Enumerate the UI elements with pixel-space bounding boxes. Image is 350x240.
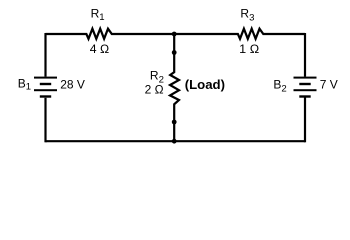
svg-text:7 V: 7 V <box>320 78 338 92</box>
svg-text:R1: R1 <box>91 7 105 24</box>
svg-text:4 Ω: 4 Ω <box>90 42 109 56</box>
svg-text:B1: B1 <box>18 76 31 92</box>
svg-text:B2: B2 <box>273 78 286 95</box>
svg-text:R3: R3 <box>240 7 254 24</box>
svg-text:1 Ω: 1 Ω <box>239 42 259 56</box>
svg-text:2 Ω: 2 Ω <box>145 82 164 96</box>
svg-text:(Load): (Load) <box>185 77 225 92</box>
svg-text:28 V: 28 V <box>60 78 85 92</box>
